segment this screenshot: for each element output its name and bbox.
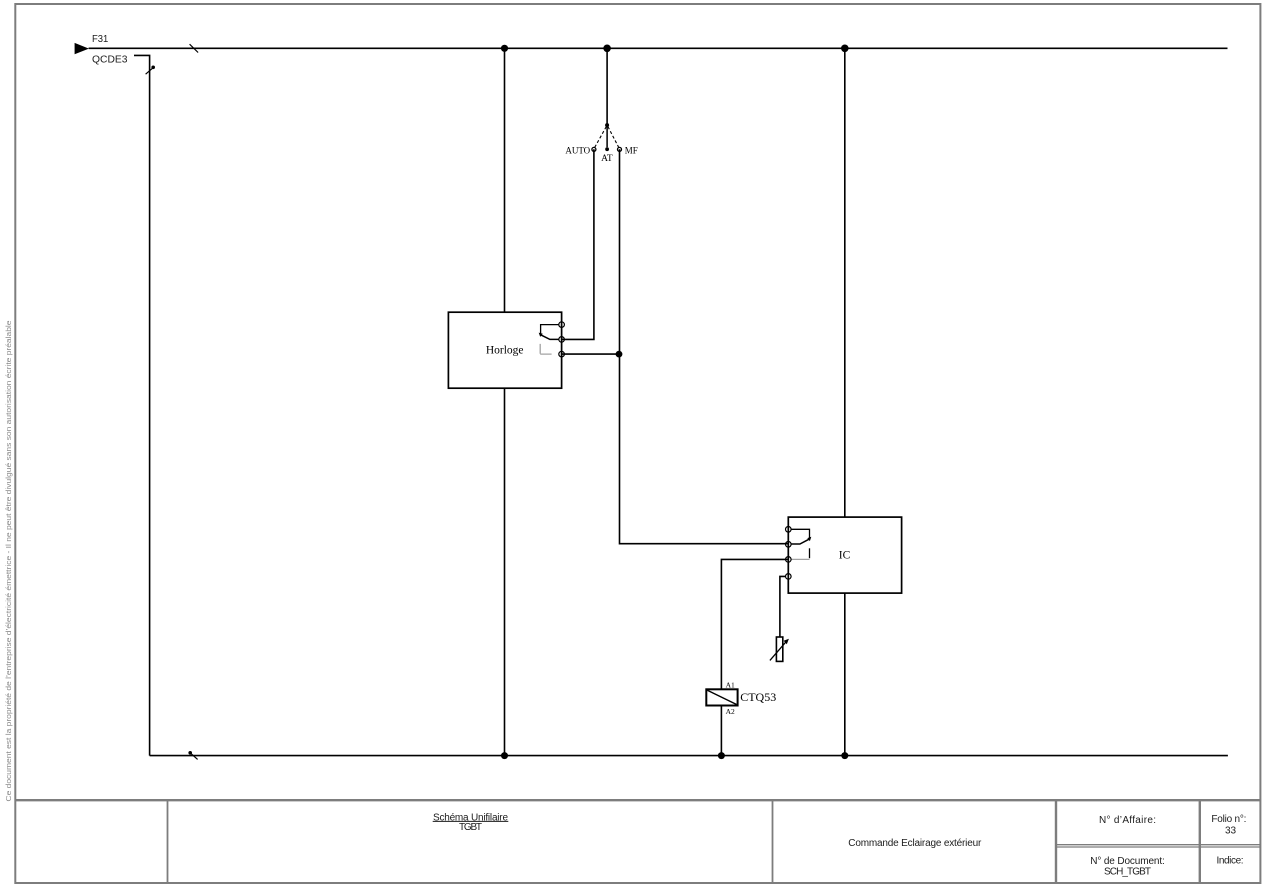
svg-text:Folio n°:: Folio n°: <box>1211 814 1246 825</box>
junction top bus / IC branch <box>841 45 849 53</box>
svg-text:A1: A1 <box>726 680 735 689</box>
svg-text:QCDE3: QCDE3 <box>92 55 128 66</box>
selector contact MF <box>618 147 622 151</box>
feeder arrow head <box>75 43 89 54</box>
junction top bus / Horloge branch <box>501 45 508 52</box>
wire top bus to IC <box>844 48 846 517</box>
svg-text:AT: AT <box>601 154 613 164</box>
junction bottom bus / coil branch <box>718 752 725 759</box>
svg-text:33: 33 <box>1225 826 1237 837</box>
coil CTQ53 <box>706 689 737 705</box>
svg-text:F31: F31 <box>92 34 109 45</box>
svg-text:CTQ53: CTQ53 <box>740 690 776 704</box>
wire AUTO to Horloge contact 2 <box>562 149 594 339</box>
wire Horloge contact 3 to MF line <box>562 353 620 355</box>
svg-text:TGBT: TGBT <box>459 822 482 833</box>
top bus wire <box>89 47 1228 49</box>
wire Horloge to bottom bus <box>504 388 506 755</box>
selector contact AUTO <box>592 147 596 151</box>
light sensor / variable resistor body <box>776 637 782 661</box>
svg-text:N° de Document:: N° de Document: <box>1090 856 1165 867</box>
selector dashed arm to MF <box>608 127 619 149</box>
IC terminal circle 1 <box>786 527 792 533</box>
bottom bus wire <box>150 755 1228 757</box>
svg-text:N° d’Affaire:: N° d’Affaire: <box>1099 815 1156 826</box>
Horloge terminal circle 3 <box>559 351 565 357</box>
IC box <box>788 517 901 593</box>
selector dashed arm to AUTO <box>594 127 606 149</box>
wire top bus to Horloge <box>504 48 506 312</box>
IC terminal circle 4 <box>786 574 792 580</box>
wire selector common <box>606 48 608 125</box>
wire IC contact 4 to light sensor <box>780 576 786 637</box>
IC terminal circle 3 <box>786 557 792 563</box>
svg-text:IC: IC <box>839 550 851 562</box>
top bus break slash <box>190 44 199 52</box>
selector centre contact AT <box>605 127 609 151</box>
svg-text:SCH_TGBT: SCH_TGBT <box>1104 866 1151 877</box>
svg-text:AUTO: AUTO <box>565 145 590 155</box>
Horloge NO contact (grey) <box>540 344 551 354</box>
svg-text:A2: A2 <box>726 707 735 716</box>
wire QCDE3 drop (left branch) <box>134 55 150 755</box>
IC NO contact (grey) <box>792 548 810 559</box>
svg-text:Indice:: Indice: <box>1217 855 1244 866</box>
wire coil A2 to bottom bus <box>720 706 722 756</box>
svg-text:Ce document est la propriété d: Ce document est la propriété de l’entrep… <box>4 320 13 801</box>
IC terminal circle 2 <box>786 542 792 548</box>
IC changeover contact (common + arm) <box>791 529 811 544</box>
svg-text:Commande Eclairage extérieur: Commande Eclairage extérieur <box>848 838 982 849</box>
Horloge terminal circle 1 <box>559 322 565 328</box>
wire IC contact 3 to coil CTQ53 <box>721 559 788 689</box>
Horloge changeover contact (common + arm) <box>539 325 559 340</box>
junction MF line / Horloge contact 3 <box>616 351 623 358</box>
left branch link point (slash with dot) <box>146 66 155 75</box>
wire IC to bottom bus <box>844 593 846 756</box>
junction bottom bus / Horloge branch <box>501 752 508 759</box>
svg-text:Horloge: Horloge <box>486 344 524 356</box>
svg-text:MF: MF <box>625 145 638 155</box>
Horloge box <box>448 312 561 388</box>
selector switch pivot <box>605 123 609 127</box>
wire MF line down to IC contact 2 <box>620 149 789 543</box>
junction top bus / selector branch <box>603 45 611 53</box>
bottom bus link point (slash with dot) <box>188 751 197 759</box>
Horloge terminal circle 2 <box>559 337 565 343</box>
junction bottom bus / IC branch <box>841 752 848 759</box>
light sensor arrow <box>770 639 789 661</box>
